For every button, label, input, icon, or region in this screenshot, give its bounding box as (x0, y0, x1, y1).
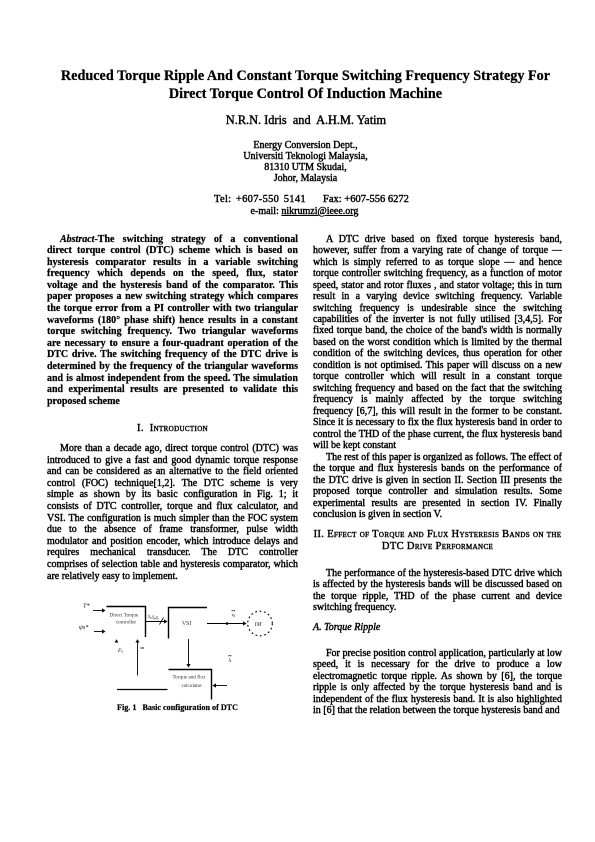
wire current input into calculator (216, 685, 227, 687)
tel / fax / email (214, 194, 306, 205)
svg-text:SaSbSc: SaSbSc (147, 614, 160, 622)
figure caption (117, 703, 238, 712)
svg-text:Torque and flux: Torque and flux (173, 674, 206, 681)
block: Direct Torque Controller (top+right edges) (107, 607, 146, 638)
Fig.1 block diagram (75, 595, 290, 705)
wire T* arrow into controller (93, 610, 102, 612)
svg-text:Direct Torque: Direct Torque (110, 613, 139, 619)
right column paragraph 4 (313, 648, 562, 718)
svg-text:VSI: VSI (182, 621, 191, 627)
right column paragraph 1 (313, 234, 562, 452)
block: Torque and flux calculator (top+right edges) (169, 670, 212, 700)
introduction paragraph (47, 443, 298, 582)
block: VSI (left+top edges) (169, 608, 208, 639)
node feedback torque tick (141, 647, 145, 649)
svg-text:IM: IM (254, 622, 263, 628)
svg-text:T*: T* (83, 603, 90, 610)
right column paragraph 3 (313, 568, 562, 614)
wire feedback flux vertical (137, 641, 139, 676)
wire feedback bus bottom (117, 689, 168, 691)
address block (0, 140, 595, 185)
svg-text:is: is (229, 659, 232, 664)
wire VSI to motor (207, 623, 244, 625)
paper title (0, 67, 595, 103)
wire controller to VSI (146, 621, 164, 623)
wire flux ref arrow into controller (94, 631, 102, 633)
junction dot (226, 622, 229, 625)
wire VSI down to calculator (188, 639, 190, 664)
section heading II (313, 529, 562, 553)
wire feedback torque arrowhead (115, 639, 119, 642)
authors (0, 113, 595, 128)
svg-text:vs: vs (232, 614, 236, 619)
motor IM dashed circle (248, 611, 273, 636)
svg-text:controller: controller (116, 620, 136, 626)
junction slash on bus (160, 618, 164, 625)
svg-text:Fs: Fs (117, 648, 123, 654)
right column paragraph 2 (313, 452, 562, 522)
svg-text:calculator: calculator (182, 683, 203, 689)
svg-text:ψs*: ψs* (79, 624, 89, 631)
abstract (bold) (47, 234, 298, 408)
subsection heading A (313, 622, 562, 634)
section heading I (47, 423, 298, 435)
